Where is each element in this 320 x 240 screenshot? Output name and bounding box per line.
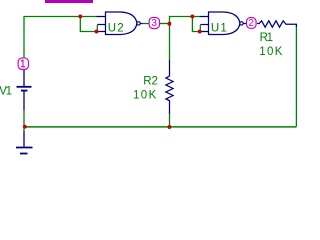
junction dot U1 top feed: [190, 14, 194, 18]
junction dot bottom left: [23, 125, 27, 129]
gate U2 output pin stub: [140, 23, 142, 25]
svg-text:U1: U1: [211, 23, 228, 35]
gate U1 output bubble: [240, 22, 243, 25]
svg-text:3: 3: [151, 18, 157, 29]
node 3 circle: [149, 17, 159, 28]
svg-text:R1: R1: [260, 32, 273, 44]
ground short bar: [20, 153, 28, 155]
wire rail junction to ground lead: [23, 127, 25, 132]
battery V1 bottom lead: [23, 91, 25, 110]
gate U2 body (NAND): [106, 12, 137, 35]
gate U1 output pin stub to node 2: [243, 23, 246, 25]
battery V1 top lead: [23, 70, 25, 86]
node 1 circle: [18, 58, 28, 70]
gate U1 body (NAND): [209, 12, 240, 35]
junction dot B (U2 lower input): [95, 30, 99, 34]
junction dot node3 / R2 top: [167, 22, 171, 26]
svg-text:R2: R2: [143, 76, 158, 88]
wire U2 output to node 3: [142, 23, 149, 25]
wire bottom ground rail: [24, 126, 296, 128]
junction dot U1 lower input: [198, 30, 202, 34]
gate U2 input pin leads and tie bar: [96, 17, 105, 32]
gate U1 input pin leads and tie bar: [199, 17, 208, 32]
resistor R1 zigzag: [257, 21, 296, 27]
wire right vertical from R1 down to rail: [295, 27, 297, 127]
node 2 circle: [247, 18, 257, 29]
wire U1 lower input feed: [192, 17, 199, 32]
gate U2 output bubble: [137, 22, 140, 25]
wire node 3 to junction: [159, 23, 169, 25]
wire R2 bottom to ground rail: [169, 114, 171, 128]
svg-text:10K: 10K: [133, 90, 158, 102]
svg-text:2: 2: [248, 18, 254, 29]
svg-text:10K: 10K: [259, 46, 284, 58]
wire node junction down to R2: [169, 24, 171, 61]
node 1 digit: [21, 60, 25, 67]
wire U2 input tie jog: [96, 25, 98, 32]
ground lead: [23, 131, 25, 147]
junction dot A (top rail / U2 feed): [78, 14, 82, 18]
junction dot bottom middle (R2 / rail): [167, 125, 171, 129]
ground long bar: [16, 147, 33, 149]
resistor R2 body zigzag with leads: [166, 60, 173, 114]
svg-text:U2: U2: [108, 23, 125, 35]
wire junction up and over to U1 input: [170, 17, 200, 24]
battery V1 long plate: [17, 86, 32, 88]
wire battery bottom to rail junction: [23, 110, 25, 127]
wire U2 lower input feed: [80, 17, 96, 32]
magenta selection bar (cropped label): [45, 0, 93, 3]
svg-text:V1: V1: [0, 86, 12, 98]
battery V1 short plate: [21, 90, 28, 92]
wire left vertical + top rail to U2 input: [24, 17, 96, 59]
wire U1 input tie jog: [199, 25, 201, 32]
